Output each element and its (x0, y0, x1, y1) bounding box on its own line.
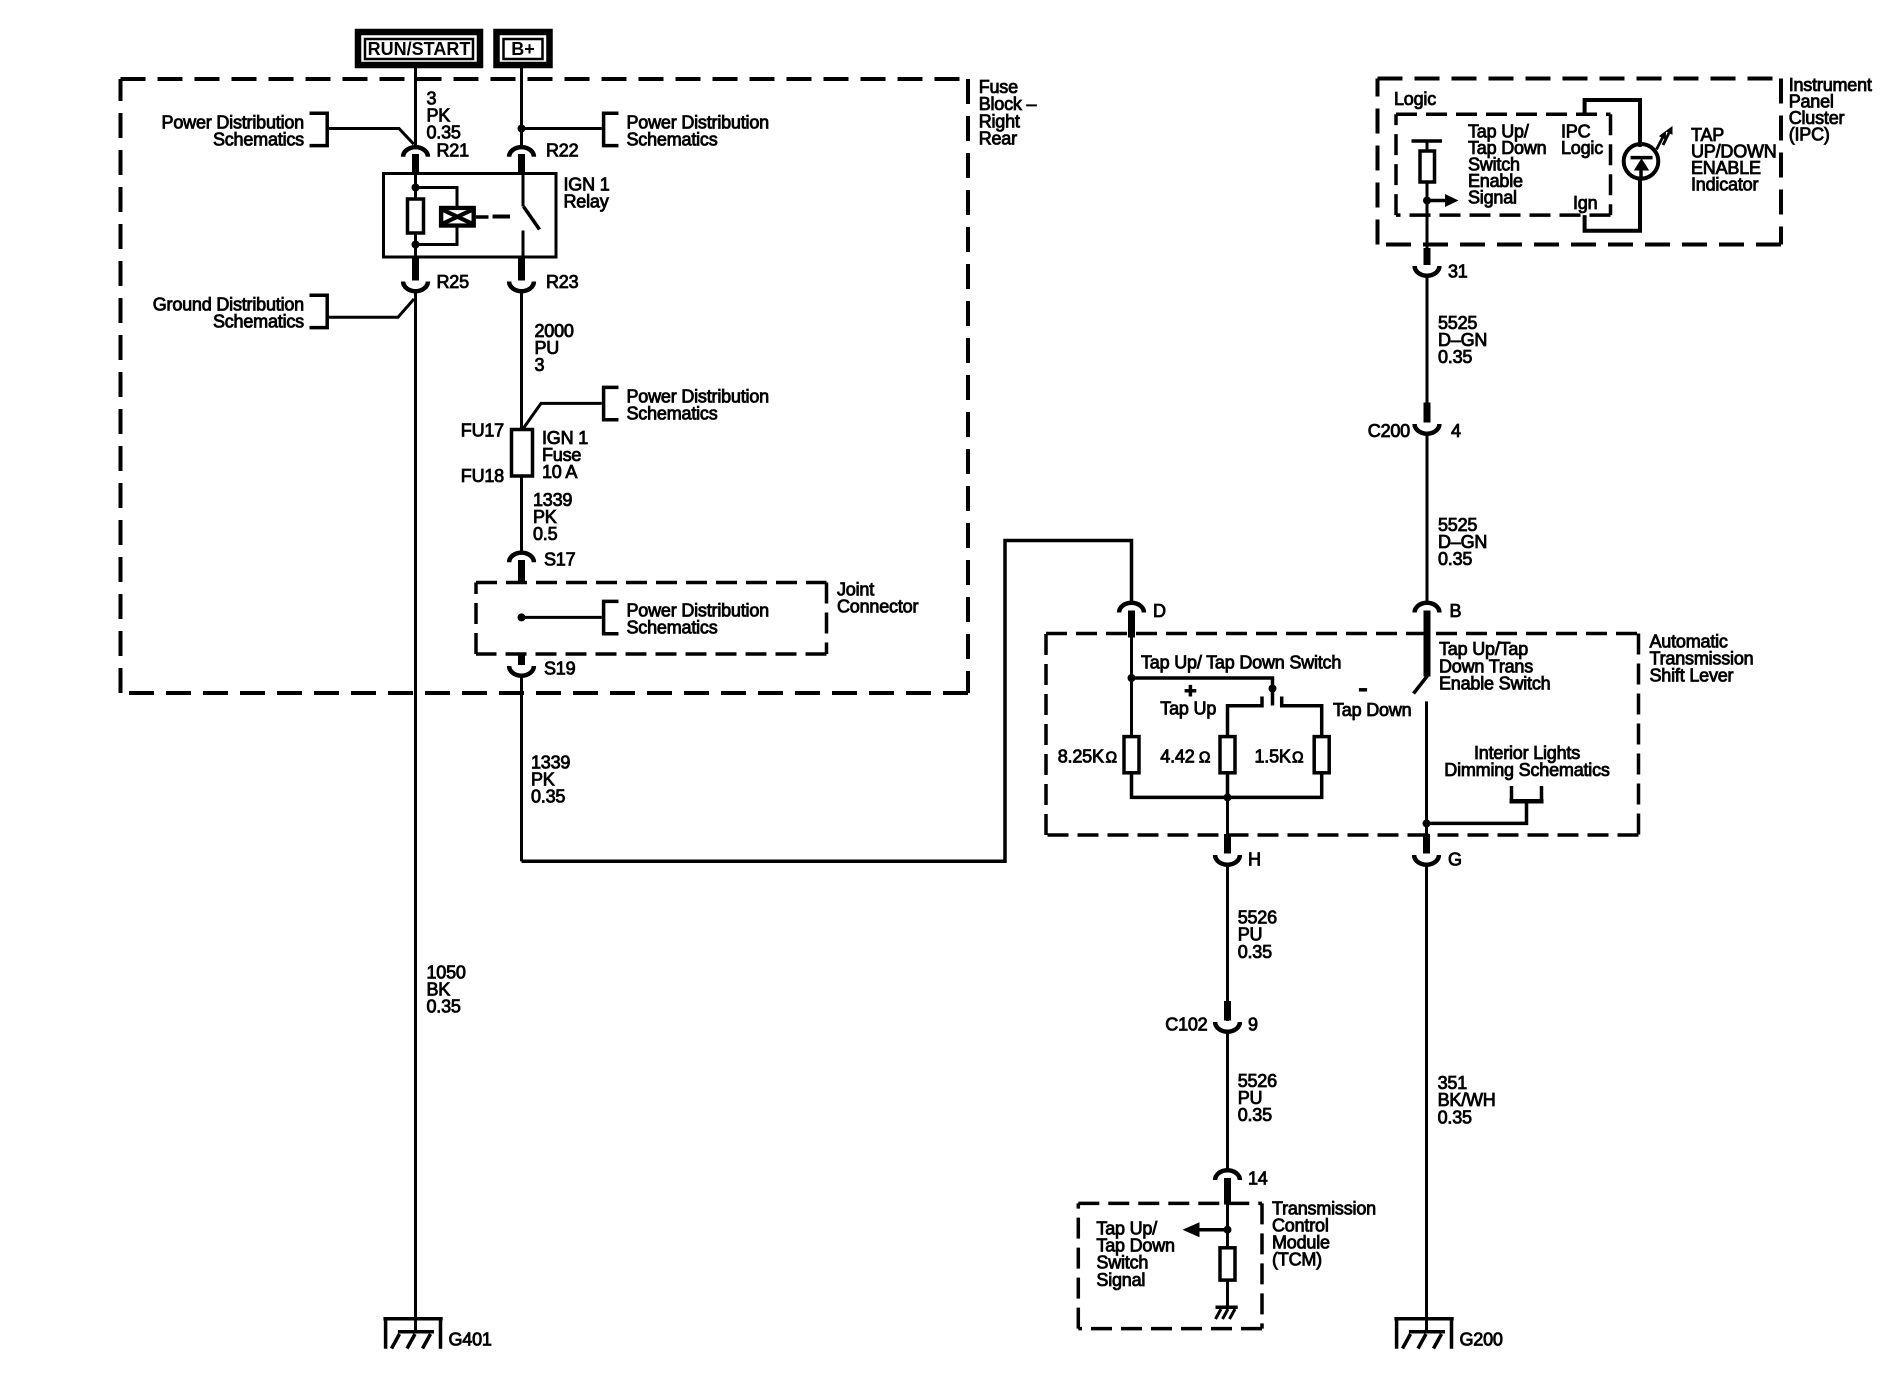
label 3 PK 0.35 (427, 88, 461, 142)
switch contact Tap Down (1282, 697, 1322, 737)
svg-text:RUN/START: RUN/START (368, 39, 471, 59)
fuse IGN 1 FU17/FU18 (461, 420, 588, 486)
relay actuator dash (493, 215, 511, 219)
svg-text:Tap Down: Tap Down (1333, 700, 1411, 720)
svg-text:Schematics: Schematics (627, 129, 718, 149)
connector 31 (1415, 248, 1468, 282)
bracket interior lights (1427, 786, 1544, 823)
minus sign Tap Down (1359, 688, 1367, 692)
svg-text:Ign: Ign (1573, 193, 1597, 213)
resistor 4.42 ohm (1160, 737, 1235, 773)
node TCM (1224, 1226, 1232, 1234)
svg-text:S17: S17 (544, 550, 576, 570)
svg-text:3: 3 (535, 355, 545, 375)
svg-text:S19: S19 (544, 659, 576, 679)
connector R25 (403, 256, 469, 292)
label Fuse Block - Right Rear (979, 77, 1037, 148)
switch pole blade (1271, 689, 1275, 706)
switch contact Tap Up (1228, 697, 1263, 737)
label Power Distribution Schematics (left) (162, 112, 328, 149)
relay coil symbol (439, 206, 489, 228)
resistor 8.25K ohm (1058, 737, 1139, 773)
wire H down to C102 (1226, 865, 1229, 1022)
node interior lights tap (1423, 819, 1431, 827)
svg-text:1.5K: 1.5K (1255, 746, 1291, 766)
label Power Distribution Schematics (B+) (604, 112, 769, 149)
svg-text:0.35: 0.35 (1438, 347, 1472, 367)
svg-text:G: G (1448, 850, 1462, 870)
svg-text:Logic: Logic (1394, 89, 1436, 109)
svg-text:0.35: 0.35 (427, 123, 461, 143)
svg-text:(TCM): (TCM) (1272, 1250, 1322, 1270)
label TAP UP/DOWN ENABLE Indicator (1691, 125, 1777, 195)
node relay bottom (412, 241, 420, 249)
power feed box B+ (497, 32, 550, 65)
splice S19 (509, 653, 576, 679)
label 5526 PU 0.35 (2) (1238, 1071, 1277, 1125)
label 351 BK/WH 0.35 (1438, 1073, 1496, 1127)
label Power Distribution Schematics (joint) (604, 601, 769, 638)
node joint connector (518, 613, 526, 621)
resistor IPC logic pull (1412, 141, 1443, 182)
wire G down to G200 (1425, 865, 1428, 1331)
svg-text:C200: C200 (1368, 421, 1410, 441)
wire resistor to TCM ground (1226, 1280, 1229, 1307)
svg-text:Ω: Ω (1199, 749, 1210, 766)
label Tap Up/Tap Down Trans Enable Switch (1439, 639, 1550, 693)
svg-text:Schematics: Schematics (627, 404, 718, 424)
svg-text:0.35: 0.35 (1238, 1105, 1272, 1125)
LED emission arrows (1657, 126, 1673, 150)
connector D (1119, 601, 1166, 638)
svg-text:0.35: 0.35 (427, 997, 461, 1017)
label Automatic Transmission Shift Lever (1650, 631, 1754, 685)
svg-text:4.42: 4.42 (1160, 746, 1194, 766)
svg-text:14: 14 (1248, 1169, 1268, 1189)
svg-text:Tap Up/ Tap Down Switch: Tap Up/ Tap Down Switch (1141, 652, 1341, 672)
svg-text:R21: R21 (437, 141, 470, 161)
wire left bracket to R21 (329, 129, 414, 145)
label Tap Up/ Tap Down Switch Enable Signal (1468, 121, 1546, 207)
wire resistor bottom rail (1132, 773, 1322, 798)
svg-text:FU17: FU17 (461, 420, 504, 440)
svg-text:Schematics: Schematics (213, 311, 304, 331)
wire S19 through fuse block (520, 676, 523, 862)
wire run to shift lever D (522, 541, 1132, 862)
IPC logic solid box (1585, 100, 1640, 231)
svg-text:R25: R25 (437, 272, 470, 292)
svg-text:10 A: 10 A (542, 462, 577, 482)
resistor 1.5K ohm (1255, 737, 1330, 773)
wire R25 down to G401 (414, 292, 417, 1331)
label 5525 D-GN 0.35 (1438, 313, 1487, 367)
wire blade to G (1425, 701, 1428, 853)
dashed box Automatic Transmission Shift Lever (1046, 634, 1639, 836)
wire resistor down to 31 (1426, 182, 1429, 250)
wire coil loop (416, 188, 458, 245)
resistor relay coil suppression (408, 199, 424, 233)
label 5526 PU 0.35 (1238, 908, 1277, 962)
dashed box Joint Connector (476, 583, 827, 655)
svg-text:31: 31 (1448, 262, 1468, 282)
svg-text:B+: B+ (511, 39, 535, 59)
wire relay coil branch top (414, 174, 417, 201)
svg-text:Rear: Rear (979, 128, 1017, 148)
label IPC Logic (1561, 121, 1603, 158)
svg-text:Signal: Signal (1468, 188, 1517, 208)
wire pin 14 into TCM (1226, 1203, 1229, 1247)
node switch common (1128, 674, 1136, 682)
svg-text:Ω: Ω (1106, 749, 1117, 766)
label 2000 PU 3 (535, 321, 574, 375)
dashed box Fuse Block - Right Rear (121, 79, 969, 693)
svg-text:C102: C102 (1165, 1015, 1207, 1035)
label Ground Distribution Schematics (153, 294, 327, 331)
svg-text:4: 4 (1451, 421, 1461, 441)
label 5525 D-GN 0.35 (2) (1438, 515, 1487, 569)
power feed box RUN/START (358, 32, 480, 65)
svg-text:Schematics: Schematics (627, 618, 718, 638)
connector TCM pin 14 (1215, 1169, 1268, 1205)
svg-text:Relay: Relay (564, 192, 609, 212)
node on B+ wire (518, 125, 526, 133)
label Interior Lights Dimming Schematics (1444, 743, 1610, 780)
resistor TCM pull (1220, 1248, 1235, 1280)
node bottom rail (1224, 793, 1232, 801)
wire resistor to bottom node (414, 233, 417, 257)
wire D into switch (1130, 634, 1133, 681)
node switch pole (1269, 685, 1277, 693)
label Joint Connector (837, 579, 918, 616)
arrow Tap Up/Tap Down Switch Signal (1183, 1222, 1228, 1237)
svg-text:FU18: FU18 (461, 466, 504, 486)
label 1339 PK 0.35 (531, 753, 570, 807)
relay IGN 1 box (384, 174, 557, 258)
svg-text:0.35: 0.35 (531, 787, 565, 807)
connector R22 (509, 141, 579, 175)
wire RUN/START down to R21 (414, 65, 417, 146)
connector R21 (403, 141, 469, 175)
svg-text:B: B (1450, 601, 1462, 621)
wire 31 down to C200 (1426, 276, 1429, 423)
label 1050 BK 0.35 (427, 962, 466, 1016)
connector C200 pin 4 (1368, 403, 1461, 442)
connector H (1215, 834, 1261, 870)
connector C102 pin 9 (1165, 1001, 1258, 1035)
dashed box Transmission Control Module TCM (1078, 1203, 1262, 1328)
svg-text:H: H (1248, 850, 1261, 870)
svg-text:0.5: 0.5 (533, 524, 558, 544)
node IPC (1423, 197, 1431, 205)
label Power Distribution Schematics (fuse) (604, 387, 769, 424)
label Tap Up/ Tap Down Switch Signal (1096, 1219, 1174, 1290)
ground TCM internal (1216, 1307, 1238, 1319)
wire ground bracket to R25 (329, 299, 414, 317)
plus sign Tap Up (1185, 685, 1197, 697)
wire switch common rail (1132, 678, 1273, 689)
svg-text:Signal: Signal (1096, 1270, 1145, 1290)
svg-text:0.35: 0.35 (1438, 1107, 1472, 1127)
node relay top (412, 184, 420, 192)
svg-text:Indicator: Indicator (1691, 175, 1758, 195)
switch blade trans enable (1414, 676, 1428, 694)
connector G (1414, 834, 1462, 870)
wire B+ down to R22 (520, 65, 523, 146)
wire node to bracket (522, 616, 602, 619)
svg-text:R23: R23 (546, 272, 579, 292)
svg-text:Enable Switch: Enable Switch (1439, 673, 1550, 693)
svg-text:8.25K: 8.25K (1058, 746, 1104, 766)
svg-text:G401: G401 (449, 1330, 492, 1350)
svg-text:Ω: Ω (1292, 749, 1303, 766)
svg-text:Tap Up: Tap Up (1160, 698, 1216, 718)
wire 8.25K branch top (1130, 680, 1133, 737)
wire fuse to S17 (520, 476, 523, 552)
connector R23 (509, 256, 579, 292)
svg-text:9: 9 (1248, 1015, 1258, 1035)
svg-text:G200: G200 (1460, 1330, 1503, 1350)
svg-text:0.35: 0.35 (1238, 942, 1272, 962)
label 1339 PK 0.5 (533, 490, 572, 544)
label Instrument Panel Cluster (IPC) (1789, 75, 1872, 145)
svg-text:0.35: 0.35 (1438, 549, 1472, 569)
svg-text:D: D (1153, 601, 1166, 621)
svg-text:Shift Lever: Shift Lever (1650, 666, 1734, 686)
label IGN 1 Relay (564, 174, 610, 211)
LED indicator lamp (1624, 141, 1659, 179)
arrow Tap Up/Tap Down Switch Enable Signal (1427, 194, 1459, 207)
splice S17 (509, 550, 576, 584)
svg-text:Schematics: Schematics (213, 129, 304, 149)
svg-text:R22: R22 (546, 141, 579, 161)
relay switch (523, 174, 540, 258)
wire rail down to H (1226, 797, 1229, 836)
dashed box Logic (1396, 114, 1611, 215)
svg-text:Dimming Schematics: Dimming Schematics (1444, 760, 1610, 780)
connector B (1415, 601, 1462, 677)
wire R23 down to fuse (520, 292, 523, 431)
dashed box Instrument Panel Cluster (1378, 79, 1782, 245)
ground G200 (1394, 1319, 1503, 1350)
wire node to power distribution bracket (522, 127, 602, 130)
wire C200 down to B (1426, 434, 1429, 604)
wire fuse bracket lead (523, 403, 602, 429)
label Transmission Control Module (TCM) (1272, 1198, 1376, 1269)
svg-text:Logic: Logic (1561, 138, 1603, 158)
ground G401 (383, 1319, 492, 1350)
svg-text:(IPC): (IPC) (1789, 125, 1830, 145)
wire C102 down to TCM pin 14 (1226, 1032, 1229, 1172)
svg-text:Connector: Connector (837, 597, 918, 617)
